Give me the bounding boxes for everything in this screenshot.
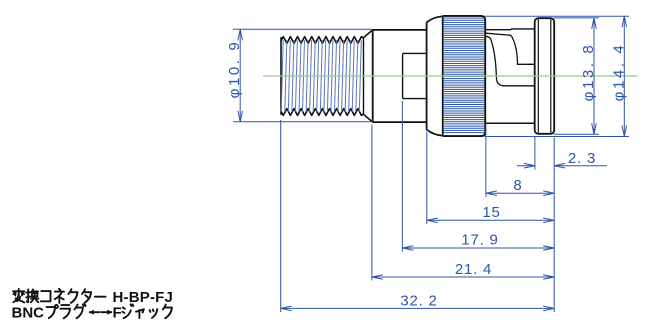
thread section outline (F-jack 3/8-32 thread, zigzag crest profile) xyxy=(281,37,364,116)
extension line x=554.2 (right end) xyxy=(553,138,555,313)
dimension phi13.8 text xyxy=(580,43,597,102)
dimension 2.3 xyxy=(517,150,607,168)
dimension phi13.8 extension lines xyxy=(554,18,600,134)
caption line 1: 変換コネクター H-BP-FJ xyxy=(13,289,173,306)
svg-text:32. 2: 32. 2 xyxy=(400,293,437,310)
caption line 2: BNCプラグ←→Fジャック xyxy=(12,304,172,321)
dimension phi10.9 line and arrows xyxy=(238,29,243,122)
extension line x=371.9 (body left) xyxy=(371,125,373,281)
knurl texture (axial knurling lines) xyxy=(444,18,485,133)
chamfer cone between thread and body xyxy=(364,30,373,122)
thread flank hatch lines xyxy=(281,40,361,112)
svg-text:2. 3: 2. 3 xyxy=(568,150,596,167)
svg-text:17. 9: 17. 9 xyxy=(461,232,498,249)
dimension 15 xyxy=(427,204,554,223)
knurled coupling nut outline (phi 14.4) xyxy=(443,16,486,136)
dimension phi14.4 extension lines xyxy=(485,16,630,136)
rear flange (phi 13.8) rounded ring xyxy=(535,18,555,134)
centerline (green) xyxy=(263,75,637,77)
extension line x=426.8 (body right) xyxy=(426,132,428,224)
bayonet J-slot xyxy=(486,33,535,86)
internal step (counterbore) rectangle xyxy=(403,53,426,98)
svg-text:φ13. 8: φ13. 8 xyxy=(580,43,597,102)
extension line x=534.9 (flange left) xyxy=(534,136,536,170)
svg-text:8: 8 xyxy=(513,177,522,194)
dimension 21.4 xyxy=(372,261,554,279)
dimension 8 xyxy=(486,177,554,196)
dimension phi14.4 line and arrows xyxy=(622,16,627,136)
svg-text:φ10. 9: φ10. 9 xyxy=(226,40,243,99)
coupling-nut shoulder fillets xyxy=(427,16,443,135)
dimension phi10.9 text xyxy=(226,40,243,99)
svg-text:21. 4: 21. 4 xyxy=(455,261,492,278)
dimension phi14.4 text xyxy=(610,43,627,102)
dimension 32.2 xyxy=(281,293,555,311)
extension line x=402.4 (step left) xyxy=(401,101,403,252)
dimension phi13.8 line and arrows xyxy=(592,18,597,134)
svg-text:φ14. 4: φ14. 4 xyxy=(610,43,627,102)
body cylinder (phi 10.9 section) xyxy=(373,22,427,129)
svg-text:F: F xyxy=(113,304,122,321)
svg-text:15: 15 xyxy=(482,204,500,221)
dimension 17.9 xyxy=(402,232,554,251)
BNC nut smooth shell xyxy=(485,29,535,123)
extension line x=280.7 (left end) xyxy=(280,120,282,312)
dimension phi10.9 extension lines xyxy=(233,29,372,122)
extension line x=485.9 (shell left) xyxy=(485,126,487,197)
svg-text:BNC: BNC xyxy=(12,304,45,321)
